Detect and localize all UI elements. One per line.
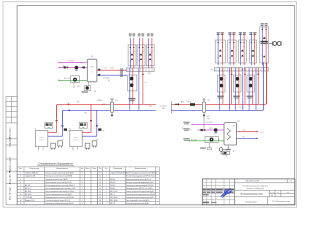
valve cluster before U1 on magenta2 [82, 67, 85, 69]
svg-text:ВТС.2-01: ВТС.2-01 [110, 191, 117, 193]
svg-text:4: 4 [106, 179, 107, 181]
boiler K1 control box [45, 122, 53, 128]
svg-text:2: 2 [82, 191, 83, 193]
flange connector [120, 68, 122, 77]
label below G2-low2 [233, 96, 240, 97]
svg-text:3: 3 [20, 179, 21, 181]
boiler K2 feet [72, 147, 74, 150]
valve pair near boiler K2 [98, 128, 101, 130]
svg-text:аа: аа [103, 130, 105, 132]
valves at top of G2-T [262, 29, 263, 30]
svg-text:Насос циркуляционный Grundfos: Насос циркуляционный Grundfos UPS [45, 187, 76, 190]
svg-text:ВЗ.4-1: ВЗ.4-1 [110, 188, 115, 190]
riser labels [129, 34, 132, 35]
svg-text:18: 18 [99, 194, 101, 196]
wire riser G1-3 red [151, 38, 153, 68]
svg-text:Обозначение: Обозначение [29, 168, 39, 170]
wire red supply main T11 left segment [57, 104, 156, 118]
svg-text:Ø80: Ø80 [181, 102, 184, 104]
wire riser G2-2 red [233, 33, 235, 65]
svg-text:Котёл: Котёл [74, 137, 78, 139]
svg-text:Лист: Лист [277, 192, 280, 194]
water heater U1 body [87, 59, 97, 82]
wire riser G1-2 blue [138, 38, 140, 68]
svg-text:7: 7 [20, 191, 21, 193]
svg-text:ВЗ.1-1: ВЗ.1-1 [25, 185, 30, 187]
svg-text:ВС1: ВС1 [207, 100, 210, 102]
svg-text:Т21 Ø40: Т21 Ø40 [103, 78, 109, 80]
wire riser G2-3 blue [240, 33, 242, 65]
svg-text:Справ. №: Справ. № [8, 136, 11, 147]
label below G1-low [128, 98, 135, 99]
regulator valve on red main [190, 103, 195, 106]
svg-text:Поз: Поз [99, 168, 102, 170]
svg-text:Агрегат воздушно-отопительный: Агрегат воздушно-отопительный АО2-4 [126, 172, 157, 175]
svg-text:спуск: спуск [207, 118, 211, 120]
svg-text:В1 Ø32: В1 Ø32 [64, 78, 70, 80]
svg-text:ду80: ду80 [102, 104, 105, 106]
svg-text:19: 19 [99, 197, 101, 199]
svg-text:2: 2 [106, 191, 107, 193]
svg-text:Клапан запорн латунный муфт Ду: Клапан запорн латунный муфт Ду32 [45, 172, 74, 175]
svg-text:Ø65: Ø65 [149, 106, 152, 108]
svg-text:ВЗ.2-3: ВЗ.2-3 [110, 182, 115, 184]
svg-text:Кол: Кол [105, 168, 108, 170]
svg-text:Листов: Листов [286, 192, 290, 194]
svg-text:Узел Вм павильонный п.Мирный: Узел Вм павильонный п.Мирный [242, 184, 268, 187]
svg-text:4: 4 [82, 203, 83, 205]
wire red out of U2 [237, 131, 257, 133]
lower pump box group1 [128, 75, 137, 91]
riser box G2-3 [239, 40, 247, 63]
expansion tank K2a [85, 143, 90, 148]
svg-text:Тепловой пункт: Тепловой пункт [245, 200, 257, 203]
pump P4 [214, 128, 218, 132]
svg-text:серия 5.903-13 В3.4: серия 5.903-13 В3.4 [110, 173, 126, 175]
svg-text:Т3 Ø40: Т3 Ø40 [68, 60, 74, 62]
wire riser G2-3 red [243, 33, 245, 65]
svg-text:серия 16.58: серия 16.58 [25, 176, 35, 178]
balancing valves in G2-2 [231, 49, 234, 51]
left margin stamp column [6, 97, 17, 205]
svg-text:Ø40: Ø40 [111, 68, 114, 70]
boiler K2 control box [79, 122, 87, 128]
wire riser G1-1 blue [129, 38, 131, 68]
svg-text:Обозначение: Обозначение [113, 168, 122, 170]
wire magenta T3 top into U1 [60, 62, 88, 64]
svg-text:в1: в1 [182, 127, 184, 129]
svg-text:ВЗ.1-2: ВЗ.1-2 [25, 188, 30, 190]
svg-text:1: 1 [82, 179, 83, 181]
tap dot on red main right [177, 103, 179, 105]
equipment table right grid [98, 167, 160, 205]
wire riser G2-T blue [261, 27, 263, 66]
svg-text:2: 2 [106, 185, 107, 187]
svg-text:Счётчик холодной воды ВСХ-25: Счётчик холодной воды ВСХ-25 [45, 199, 70, 202]
svg-text:9: 9 [20, 197, 21, 199]
wire green cold water [190, 140, 224, 142]
svg-text:ВЗ.2-7: ВЗ.2-7 [110, 185, 115, 187]
wire blue return main T21 left segment [62, 110, 156, 124]
title block frame [202, 179, 295, 205]
balancing valves in G1-1 [131, 53, 134, 55]
riser box G2-4 [249, 40, 256, 63]
svg-text:Т11: Т11 [105, 68, 108, 70]
sheet inner frame [17, 6, 295, 205]
wire riser G1-3 blue [147, 38, 149, 68]
pump unit box on green pipe [71, 76, 80, 83]
wire group2 inter drops [228, 68, 230, 111]
svg-text:Взам. инв. №: Взам. инв. № [8, 170, 11, 184]
valve cluster on magenta pipe [64, 66, 66, 68]
svg-text:16: 16 [99, 188, 101, 190]
svg-text:13: 13 [99, 179, 101, 181]
water meter below green pump box [209, 143, 211, 148]
wire boiler K1 blue riser [61, 110, 63, 136]
svg-text:а1: а1 [97, 139, 99, 141]
riser box G1-2 [137, 45, 145, 66]
signature scribble [221, 189, 232, 198]
manifold group 2b [244, 68, 268, 71]
svg-text:11: 11 [99, 173, 101, 175]
wire boiler K2 blue riser [96, 110, 98, 136]
svg-text:Кран шаровой стальной Ду65: Кран шаровой стальной Ду65 [126, 199, 149, 202]
svg-text:11: 11 [20, 203, 22, 205]
boiler K2 body [70, 130, 82, 146]
svg-text:6: 6 [20, 188, 21, 190]
svg-text:15: 15 [99, 185, 101, 187]
air separator VS1 [110, 102, 113, 112]
lower pump box G2-low1 [218, 75, 225, 92]
svg-text:W: W [233, 125, 235, 127]
svg-text:а1: а1 [62, 139, 64, 141]
balancing valves in G2-4 [252, 49, 255, 51]
svg-text:Ø25: Ø25 [77, 86, 80, 88]
title block header text rows [203, 189, 206, 190]
svg-text:ВЗ.10-2: ВЗ.10-2 [25, 194, 31, 196]
svg-text:Котёл: Котёл [40, 137, 44, 139]
wire red supply main T11 right segment [171, 62, 266, 104]
svg-text:ГВС Ø40: ГВС Ø40 [206, 122, 213, 124]
pump unit box on green pipe [205, 136, 218, 142]
boiler K1 body [35, 130, 47, 146]
wire riser G2-4 red [254, 33, 256, 65]
svg-text:Б2: Б2 [237, 121, 239, 123]
svg-text:21: 21 [99, 203, 101, 205]
svg-text:2: 2 [106, 194, 107, 196]
svg-text:14: 14 [99, 182, 101, 184]
expansion tank K2b [92, 141, 97, 146]
svg-text:1: 1 [106, 203, 107, 205]
svg-text:система от ТрВодок ВМ: система от ТрВодок ВМ [246, 188, 264, 190]
wire riser G1-1 red [133, 38, 135, 68]
drain of VS2 [203, 112, 205, 116]
svg-text:Б1: Б1 [91, 56, 93, 58]
svg-text:20: 20 [99, 200, 101, 202]
air separator VS2 [202, 102, 205, 112]
balancing valves in G2-T [263, 37, 266, 39]
riser labels [249, 32, 252, 33]
svg-text:2: 2 [82, 194, 83, 196]
svg-text:2: 2 [20, 176, 21, 178]
svg-text:Т11 Ø80: Т11 Ø80 [239, 107, 245, 109]
svg-text:Регулятор перепада давления РД: Регулятор перепада давления РД-40 [126, 194, 155, 196]
svg-text:СТ.25.08: СТ.25.08 [25, 197, 32, 199]
svg-text:1: 1 [82, 200, 83, 202]
title block left grid [202, 179, 234, 205]
svg-text:Грязевик абонентский ГА-80: Грязевик абонентский ГА-80 [45, 178, 67, 181]
svg-text:к Т11: к Т11 [260, 132, 264, 134]
wire riser G2-4 blue [250, 33, 252, 65]
expansion tank K1a [51, 143, 56, 148]
valves at top of G1-1 [130, 47, 131, 48]
svg-text:1: 1 [106, 173, 107, 175]
svg-text:Бак расширительный мембр V=100: Бак расширительный мембр V=100л [45, 190, 74, 193]
svg-text:Ø25: Ø25 [207, 116, 210, 118]
svg-text:1: 1 [106, 197, 107, 199]
svg-text:6: 6 [106, 188, 107, 190]
drop from green pump box [73, 82, 75, 88]
svg-text:1: 1 [82, 173, 83, 175]
svg-text:5: 5 [20, 185, 21, 187]
svg-text:К1: К1 [35, 128, 37, 130]
svg-text:Видал 2.95: Видал 2.95 [25, 200, 34, 202]
wire group1 manifold drops [138, 68, 140, 111]
wire blue return main T21 right segment [171, 62, 263, 110]
svg-text:2: 2 [106, 176, 107, 178]
drain of VS1 [111, 112, 113, 116]
svg-text:Подпись и дата: Подпись и дата [9, 156, 11, 173]
svg-text:Наименование: Наименование [135, 168, 146, 170]
svg-text:Ø80: Ø80 [162, 108, 165, 110]
riser labels [261, 23, 264, 24]
riser labels [239, 32, 242, 33]
wire boiler K1 red riser [56, 105, 58, 133]
valves at top of G2-1 [217, 42, 218, 43]
lower pump box G2-low2 [234, 75, 241, 92]
svg-text:Клапан предохранительный Ду25: Клапан предохранительный Ду25 [45, 193, 71, 196]
wire riser G1-2 red [142, 38, 144, 68]
riser labels [147, 34, 150, 35]
wire blue out of U1 [97, 74, 127, 76]
svg-text:Масса: Масса [86, 168, 90, 170]
U2 coil [227, 128, 231, 140]
valve pair near boiler K1 [64, 128, 67, 130]
svg-text:эт.1: эт.1 [144, 82, 147, 84]
svg-text:Наименование: Наименование [57, 168, 68, 170]
wire right riser drops [262, 63, 264, 110]
svg-text:8: 8 [20, 194, 21, 196]
svg-text:Вентилятор радиальный ВР 80-75: Вентилятор радиальный ВР 80-75-2.5 [126, 175, 156, 178]
svg-text:Инв. № подл.: Инв. № подл. [8, 186, 11, 200]
svg-text:Т11: Т11 [242, 130, 245, 132]
heat meter assembly in G2-T [261, 41, 268, 43]
riser box G1-1 [128, 45, 136, 66]
pump P3 on magenta pipe [75, 66, 79, 70]
svg-text:Кол: Кол [81, 168, 84, 170]
svg-text:Т4: Т4 [190, 130, 192, 132]
valves at top of G2-4 [251, 42, 252, 43]
balancing valves in G1-3 [149, 53, 152, 55]
svg-text:ааа: ааа [82, 127, 85, 129]
valve on boiler K2 red riser [90, 120, 92, 122]
wire riser G2-1 red [222, 33, 224, 65]
drain pump below U2 [223, 145, 229, 150]
svg-text:Манометр показ МП4-У 0-0.6 МПа: Манометр показ МП4-У 0-0.6 МПа [126, 188, 153, 190]
svg-text:2: 2 [106, 200, 107, 202]
valves at top of G1-3 [148, 47, 149, 48]
riser box G2-T [260, 27, 269, 63]
svg-text:Термометр показывающий ТБП-63: Термометр показывающий ТБП-63 [126, 184, 153, 187]
svg-text:Воздухоотводчик автом Ду15 об.: Воздухоотводчик автом Ду15 об. [126, 179, 152, 181]
lower pump box G2-low3 [247, 75, 254, 92]
valve on boiler K1 red riser [56, 120, 58, 122]
svg-text:В1 Ø40: В1 Ø40 [191, 139, 197, 141]
sheet outer border [3, 2, 297, 207]
svg-text:2: 2 [82, 188, 83, 190]
wire riser G2-1 blue [217, 33, 219, 65]
valve on boiler K1 blue riser [62, 125, 64, 127]
balancing valves in G1-2 [140, 53, 143, 55]
svg-text:КВа-1.0: КВа-1.0 [73, 140, 78, 142]
wire riser G2-T red [265, 27, 267, 66]
match line between main segments [170, 101, 172, 113]
svg-text:ВС1: ВС1 [115, 100, 118, 102]
balancing valves in G2-3 [241, 49, 244, 51]
svg-text:Тепломеханическая схема: Тепломеханическая схема [240, 194, 262, 196]
makeup water unit below U2 [223, 151, 230, 154]
svg-text:Водонагреватель ёмкостный ВЭ-5: Водонагреватель ёмкостный ВЭ-500 [45, 196, 74, 199]
svg-text:ООО «Инженерные сети»: ООО «Инженерные сети» [272, 201, 290, 203]
svg-text:Прим: Прим [93, 168, 96, 170]
svg-text:Фильтр сетчатый магнитный ФММ: Фильтр сетчатый магнитный ФММ [45, 175, 72, 178]
riser box G1-3 [146, 45, 154, 66]
svg-text:Ø76х3: Ø76х3 [97, 100, 102, 102]
riser box G2-1 [215, 40, 225, 63]
expansion joint pumps right [269, 43, 273, 45]
junction dot red main [68, 103, 70, 105]
svg-text:ВЗ.10-1: ВЗ.10-1 [25, 191, 31, 193]
valve cluster on recirculation [201, 129, 203, 131]
balancing valves in G2-1 [219, 49, 222, 51]
manifold group 1 [126, 68, 154, 72]
valves on U1 outlet [98, 69, 100, 71]
wire magenta recirculation [198, 129, 225, 131]
svg-text:ГР2: ГР2 [211, 70, 214, 72]
riser labels [228, 32, 231, 33]
valves at top of G2-3 [240, 42, 241, 43]
wire red out of U1 [97, 69, 127, 71]
svg-text:ааа: ааа [48, 127, 51, 129]
extra words left section [203, 194, 209, 195]
svg-text:ВТС.8-08: ВТС.8-08 [110, 200, 117, 202]
svg-text:КВа-1.0: КВа-1.0 [39, 140, 44, 142]
svg-text:8: 8 [82, 182, 83, 184]
svg-text:10: 10 [20, 200, 22, 202]
svg-text:1: 1 [20, 173, 21, 175]
svg-text:Ø76: Ø76 [77, 102, 80, 104]
svg-text:Затвор дисковый поворотный Ду8: Затвор дисковый поворотный Ду80 [126, 196, 154, 199]
svg-text:2: 2 [82, 185, 83, 187]
svg-text:д1: д1 [233, 150, 235, 152]
svg-text:Т3: Т3 [187, 123, 189, 125]
svg-text:2: 2 [106, 182, 107, 184]
wire boiler K2 red riser [90, 105, 92, 133]
drain pump assembly below U1 [87, 82, 89, 86]
manifold group 2a [214, 68, 242, 71]
svg-text:Термометр биметаллический ТБ-6: Термометр биметаллический ТБ-63 [45, 202, 73, 205]
valves at top of G2-2 [229, 42, 230, 43]
riser box G2-2 [228, 40, 236, 63]
label below G2-low1 [217, 96, 224, 97]
svg-text:Ø50: Ø50 [148, 73, 151, 75]
svg-text:Грязевик вертикальный Ду80: Грязевик вертикальный Ду80 [126, 202, 149, 205]
svg-text:Ø76: Ø76 [84, 113, 87, 115]
label below G2-low3 [247, 96, 254, 97]
svg-text:К2: К2 [69, 128, 71, 130]
svg-text:ВЗ.2-1: ВЗ.2-1 [110, 179, 115, 181]
svg-text:2015-ИОС4.ТМ: 2015-ИОС4.ТМ [245, 181, 259, 183]
svg-text:серия 5.903-13: серия 5.903-13 [25, 173, 37, 175]
svg-text:Клапан обратный поворотный Ду4: Клапан обратный поворотный Ду40 [126, 190, 154, 193]
svg-text:Кран шаровой латунный Ду15-80: Кран шаровой латунный Ду15-80 [45, 181, 71, 184]
svg-text:4: 4 [20, 182, 21, 184]
svg-text:12: 12 [99, 176, 101, 178]
water heater U2 body [224, 123, 237, 145]
boiler K1 feet [38, 147, 40, 150]
black tap on red main [175, 104, 177, 106]
svg-text:ВТС.8-02: ВТС.8-02 [110, 197, 117, 199]
equipment table left grid [17, 167, 97, 205]
title block middle/right grid [235, 179, 295, 205]
wire magenta T3 lower into U1 [60, 67, 88, 69]
svg-text:ЕГВ: ЕГВ [91, 67, 94, 69]
svg-text:17: 17 [99, 191, 101, 193]
svg-text:Ø80: Ø80 [189, 102, 192, 104]
svg-text:ВТС.9: ВТС.9 [110, 203, 115, 205]
wire VS2 drain [203, 116, 205, 130]
svg-text:1: 1 [82, 197, 83, 199]
wire blue out of U2 [237, 137, 257, 139]
junction dot blue main [68, 110, 70, 112]
svg-text:Стадия: Стадия [270, 192, 274, 194]
svg-text:Вентиль латунный муфтовый Ду20: Вентиль латунный муфтовый Ду20 [126, 181, 154, 184]
valves at top of G1-2 [139, 47, 140, 48]
expansion tank K1b [58, 141, 63, 146]
svg-text:ГР1: ГР1 [123, 70, 126, 72]
svg-text:Спецификация оборудования: Спецификация оборудования [38, 162, 73, 165]
riser labels [138, 34, 141, 35]
riser labels [217, 32, 220, 33]
gray label pairs left of GVS lines [183, 122, 189, 123]
svg-text:ВТС.7: ВТС.7 [110, 194, 115, 196]
svg-text:Т21: Т21 [242, 136, 245, 138]
svg-text:2в: 2в [290, 181, 292, 183]
svg-text:2: 2 [82, 176, 83, 178]
wire riser G2-2 blue [229, 33, 231, 65]
wire green B1 into U1 [60, 79, 88, 81]
wire magenta GVS supply [193, 124, 225, 126]
valve on boiler K2 blue riser [96, 125, 98, 127]
svg-text:см.лист 2: см.лист 2 [160, 106, 167, 108]
svg-text:Котёл водогрейный стальной КВа: Котёл водогрейный стальной КВа-1.0 [45, 184, 74, 187]
svg-text:Ø25: Ø25 [209, 128, 212, 130]
